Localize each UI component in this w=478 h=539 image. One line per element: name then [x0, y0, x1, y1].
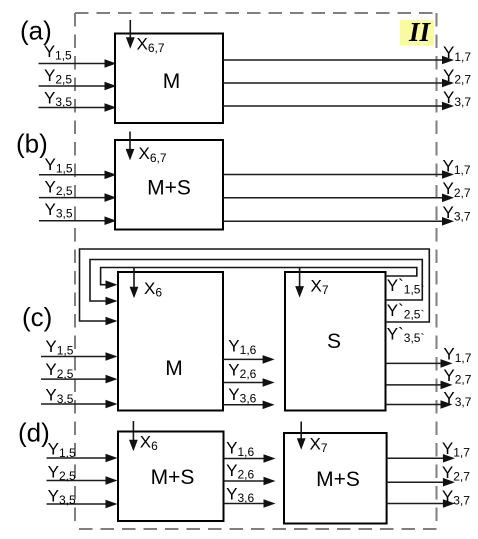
svg-text:Y`1,5`: Y`1,5`	[387, 276, 425, 297]
wire Y1,7 output (b)	[223, 174, 444, 176]
block M+S 1 (d)	[118, 432, 224, 522]
svg-text:M+S: M+S	[316, 468, 360, 491]
svg-text:Y2,5: Y2,5	[45, 360, 73, 381]
svg-text:Y1,7: Y1,7	[442, 439, 470, 460]
dashed boundary frame II	[75, 13, 437, 529]
svg-text:Y3,5: Y3,5	[48, 487, 76, 508]
wire Y2,6 wire (d)	[224, 480, 266, 482]
wire Y3,5 input (b)	[39, 220, 107, 222]
svg-text:Y2,7: Y2,7	[443, 66, 471, 87]
wire feedback Y`3,5` (c)	[80, 249, 430, 322]
wire Y2,5 input (b)	[39, 197, 107, 199]
svg-text:(d): (d)	[18, 418, 50, 448]
wire Y3,7 output (b)	[223, 220, 444, 222]
svg-text:(c): (c)	[22, 302, 52, 332]
wire Y1,6 wire (d)	[224, 458, 266, 460]
block M (c)	[118, 272, 223, 411]
svg-text:Y2,5: Y2,5	[44, 66, 72, 87]
wire Y1,5 input (c)	[41, 356, 108, 358]
svg-text:M: M	[165, 357, 183, 380]
wire Y3,7 output (a)	[223, 105, 444, 107]
wire Y2,7 output (b)	[223, 197, 444, 199]
svg-text:Y2,5: Y2,5	[48, 462, 76, 483]
wire Y2,6 wire (c)	[223, 382, 265, 384]
svg-text:Y1,5: Y1,5	[45, 155, 73, 176]
block M+S (b)	[115, 140, 223, 230]
svg-text:Y3,7: Y3,7	[443, 88, 471, 109]
wire feedback Y`2,5` (c)	[90, 260, 422, 302]
block S (c)	[285, 272, 386, 411]
wire X6,7 input (b)	[129, 132, 131, 151]
wire Y2,5 input (c)	[41, 378, 108, 380]
svg-text:Y1,6: Y1,6	[226, 439, 254, 460]
wire Y3,6 wire (c)	[223, 404, 265, 406]
svg-text:Y3,5: Y3,5	[44, 89, 72, 110]
block M+S 2 (d)	[284, 433, 387, 524]
svg-text:(a): (a)	[20, 16, 52, 46]
svg-text:Y3,7: Y3,7	[443, 388, 471, 409]
svg-text:Y1,7: Y1,7	[443, 344, 471, 365]
wire X6 input (c)	[133, 268, 135, 289]
wire Y3,5 input (d)	[47, 503, 108, 505]
svg-text:Y1,7: Y1,7	[443, 157, 471, 178]
svg-text:Y2,7: Y2,7	[442, 463, 470, 484]
svg-text:Y1,5: Y1,5	[44, 42, 72, 63]
svg-text:Y`2,5`: Y`2,5`	[387, 301, 425, 322]
wire Y2,7 output (d)	[387, 481, 445, 483]
wire X7 input (d)	[300, 422, 302, 441]
wire Y3,7 output (d)	[387, 503, 445, 505]
svg-text:M+S: M+S	[147, 176, 191, 199]
wire Y3,7 output (c)	[386, 404, 443, 406]
svg-text:Y2,7: Y2,7	[443, 179, 471, 200]
svg-text:Y`3,5`: Y`3,5`	[387, 324, 425, 345]
wire Y1,5 input (b)	[39, 174, 107, 176]
svg-text:Y3,7: Y3,7	[443, 203, 471, 224]
svg-text:Y1,7: Y1,7	[443, 43, 471, 64]
wire Y3,5 input (a)	[39, 107, 107, 109]
wire Y3,6 wire (d)	[224, 503, 266, 505]
svg-text:Y1,5: Y1,5	[45, 337, 73, 358]
svg-text:S: S	[327, 330, 341, 353]
wire X6,7 input (a)	[129, 20, 131, 39]
svg-text:Y3,6: Y3,6	[226, 485, 254, 506]
wire Y1,6 wire (c)	[223, 358, 265, 360]
svg-text:II: II	[408, 17, 432, 47]
svg-text:(b): (b)	[16, 129, 48, 159]
svg-text:Y3,7: Y3,7	[442, 487, 470, 508]
wire Y3,5 input (c)	[41, 403, 108, 405]
wire Y2,5 input (d)	[47, 480, 108, 482]
svg-text:Y1,5: Y1,5	[48, 440, 76, 461]
svg-text:Y3,5: Y3,5	[45, 200, 73, 221]
wire Y1,7 output (a)	[223, 59, 444, 61]
svg-text:M: M	[163, 70, 181, 93]
wire Y2,7 output (c)	[386, 384, 443, 386]
svg-text:Y2,7: Y2,7	[443, 366, 471, 387]
svg-text:Y2,6: Y2,6	[226, 461, 254, 482]
wire Y1,7 output (c)	[386, 362, 443, 364]
wire Y2,5 input (a)	[39, 85, 107, 87]
wire Y2,7 output (a)	[223, 82, 444, 84]
tag II (yellow highlight)	[400, 20, 434, 46]
wire Y1,7 output (d)	[387, 457, 445, 459]
wire Y1,5 input (a)	[39, 63, 107, 65]
svg-text:Y3,5: Y3,5	[45, 385, 73, 406]
wire X7 input (c)	[299, 268, 301, 289]
block M (a)	[115, 34, 223, 124]
svg-text:M+S: M+S	[151, 466, 195, 489]
wire feedback Y`1,5` (c)	[101, 268, 417, 285]
svg-text:Y2,6: Y2,6	[228, 361, 256, 382]
svg-text:Y2,5: Y2,5	[45, 178, 73, 199]
wire X6 input (d)	[132, 421, 134, 442]
wire Y1,5 input (d)	[47, 457, 108, 459]
svg-text:Y1,6: Y1,6	[228, 337, 256, 358]
svg-text:Y3,6: Y3,6	[228, 385, 256, 406]
